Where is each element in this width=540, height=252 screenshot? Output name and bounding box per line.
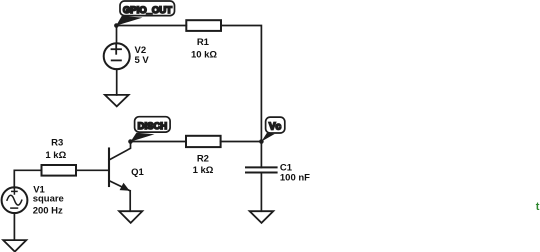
wire DISCH node to R2 xyxy=(131,141,187,143)
wire V2 bottom to ground xyxy=(116,69,118,95)
svg-text:200 Hz: 200 Hz xyxy=(33,206,63,217)
wire R2 to Vc node xyxy=(221,141,262,143)
svg-text:R3: R3 xyxy=(51,138,63,149)
label R2 value xyxy=(193,153,214,176)
node Vc junction xyxy=(259,139,264,144)
resistor R3 xyxy=(42,165,77,176)
label C1 value xyxy=(280,162,310,183)
svg-text:GPIO_OUT: GPIO_OUT xyxy=(123,5,172,16)
ground (Q1 emitter) xyxy=(119,211,142,223)
svg-text:R1: R1 xyxy=(197,37,210,48)
label R1 value xyxy=(191,37,217,60)
net label Vc xyxy=(261,117,284,141)
label V2 value xyxy=(135,45,150,66)
ground (V2) xyxy=(105,95,129,107)
svg-text:Vc: Vc xyxy=(269,121,282,132)
svg-text:DISCH: DISCH xyxy=(138,121,168,132)
transistor Q1 xyxy=(109,142,131,191)
net label GPIO_OUT xyxy=(116,1,174,26)
svg-text:10 kΩ: 10 kΩ xyxy=(191,49,217,60)
resistor R1 xyxy=(186,20,221,31)
ground (V1) xyxy=(3,240,26,252)
svg-text:square: square xyxy=(33,194,64,205)
wire R3 to Q1 base xyxy=(76,169,109,171)
wire C1 to ground xyxy=(260,173,262,212)
label R3 value xyxy=(45,138,66,161)
wire V1 top to R3 xyxy=(14,170,41,188)
net label DISCH xyxy=(131,117,171,142)
svg-text:100 nF: 100 nF xyxy=(280,173,310,184)
svg-text:t: t xyxy=(536,201,540,213)
svg-text:1 kΩ: 1 kΩ xyxy=(45,150,66,161)
wire GPIO node to R1 xyxy=(116,25,186,27)
voltage source V1 xyxy=(2,187,28,213)
capacitor C1 xyxy=(246,167,277,172)
wire V2 top to GPIO node xyxy=(116,26,118,44)
svg-text:1 kΩ: 1 kΩ xyxy=(193,165,214,176)
wire Vc node to C1 xyxy=(260,142,262,168)
label V1 value xyxy=(33,184,64,216)
wire R1 to top-right corner down to Vc node xyxy=(221,26,261,142)
wire Q1 emitter to ground xyxy=(129,191,131,211)
svg-text:R2: R2 xyxy=(197,153,209,164)
resistor R2 xyxy=(186,136,221,147)
node GPIO_OUT junction xyxy=(114,23,119,28)
node DISCH junction xyxy=(128,139,133,144)
voltage source V2 xyxy=(104,43,130,69)
wire V1 bottom to ground xyxy=(13,213,15,240)
svg-text:Q1: Q1 xyxy=(131,167,144,178)
svg-text:5 V: 5 V xyxy=(135,55,150,66)
ground (C1) xyxy=(250,211,274,223)
